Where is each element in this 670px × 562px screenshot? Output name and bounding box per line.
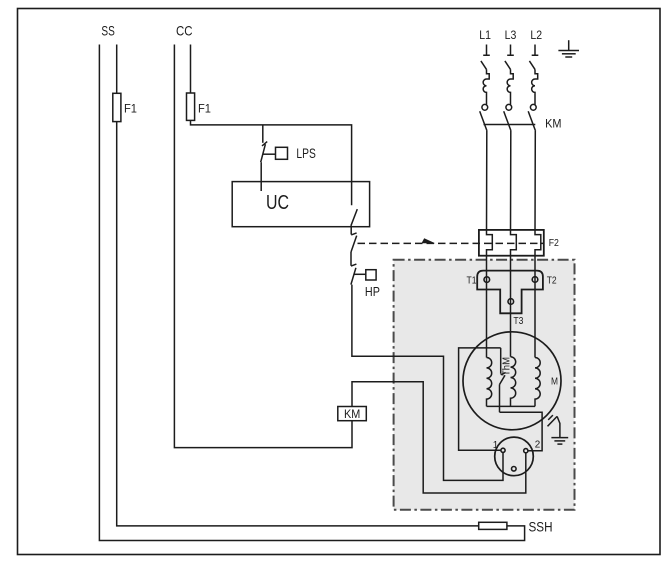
wire LPS to UC [260, 162, 262, 191]
wire HP to plug pin 1 [352, 285, 503, 481]
pressure switch LPS [261, 142, 288, 163]
pressure switch HP [351, 264, 376, 285]
linkage arrow [422, 238, 436, 243]
svg-text:T1: T1 [467, 275, 477, 287]
wire SS right to SSH fuse [117, 122, 479, 526]
breaker pole 3 (L2) [529, 45, 538, 111]
breaker pole 1 (L1) [481, 45, 490, 111]
terminal T1 [484, 277, 490, 283]
controller UC [232, 182, 369, 227]
wire CC to control chain [191, 120, 352, 205]
wire [350, 252, 352, 266]
ground (supply) [558, 40, 579, 57]
svg-text:2: 2 [535, 439, 541, 450]
terminal T2 [532, 277, 538, 283]
svg-text:M: M [551, 375, 558, 387]
wire phase 3 with F2 heater detour [535, 131, 541, 358]
mechanical linkage (dashed) [358, 242, 544, 244]
wire CC right upper [190, 45, 192, 94]
winding 2 [511, 357, 516, 407]
fuse F1 (SS line) [113, 93, 121, 121]
wire SS right upper [116, 45, 118, 94]
svg-text:L1: L1 [479, 28, 491, 42]
wire phase 2 with F2 heater detour [511, 131, 517, 357]
svg-text:SS: SS [101, 24, 114, 39]
winding 1 [487, 358, 492, 407]
contactor KM main contacts [480, 111, 536, 131]
svg-text:T3: T3 [513, 315, 523, 327]
wire phase 1 with F2 heater detour [487, 131, 493, 358]
svg-text:T2: T2 [547, 275, 557, 287]
plug pin 2 [524, 449, 528, 453]
svg-text:1: 1 [493, 440, 499, 451]
plug pin 3 [512, 467, 517, 472]
ground (motor frame) [548, 415, 569, 444]
svg-text:SSH: SSH [529, 520, 553, 535]
thermal switch ThM [500, 348, 506, 412]
svg-text:L2: L2 [530, 28, 542, 42]
winding 3 [535, 358, 540, 407]
terminal plate [477, 271, 543, 314]
wire ThM to plug pin 2 [500, 412, 543, 451]
wire motor frame to plug pin 1 [459, 348, 501, 450]
plug pin 1 [501, 448, 505, 452]
svg-text:L3: L3 [505, 28, 517, 42]
plug (terminal box) [495, 437, 534, 476]
wire KM coil to plug pin 2 [352, 382, 526, 493]
wire CC left to KM coil [174, 45, 352, 448]
fuse F1 (CC line) [187, 93, 195, 120]
motor M [463, 332, 561, 430]
svg-text:KM: KM [545, 117, 561, 131]
fuse SSH [479, 522, 507, 529]
svg-text:LPS: LPS [296, 145, 315, 161]
breaker pole 2 (L3) [505, 45, 514, 111]
svg-text:ThM: ThM [501, 357, 512, 376]
svg-text:CC: CC [176, 24, 193, 39]
wire SS left and SSH return [99, 45, 524, 541]
contactor coil KM [338, 407, 367, 421]
svg-text:UC: UC [266, 191, 289, 214]
svg-text:HP: HP [365, 284, 380, 299]
compressor enclosure (shaded) [394, 260, 575, 510]
wire [350, 226, 352, 235]
winding common bar [487, 405, 536, 407]
wire LPS branch [262, 125, 264, 143]
contact UC output [351, 209, 357, 226]
svg-text:KM: KM [344, 407, 360, 421]
svg-text:F1: F1 [124, 102, 137, 116]
svg-text:F1: F1 [198, 102, 211, 116]
overload relay F2 [479, 230, 544, 256]
svg-text:F2: F2 [549, 238, 560, 249]
contact linked to F2 [351, 233, 357, 252]
terminal T3 [508, 299, 514, 305]
